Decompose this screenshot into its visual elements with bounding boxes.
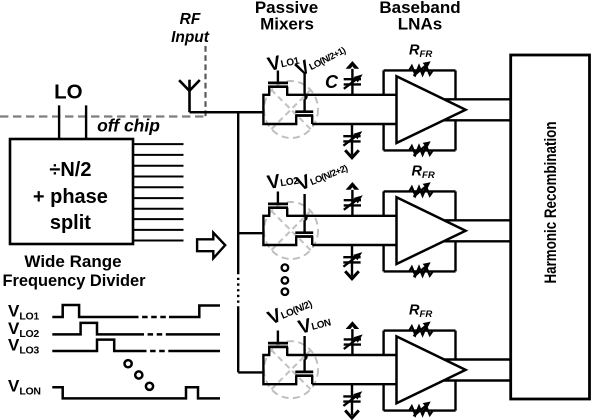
svg-text:VLON: VLON xyxy=(8,377,41,398)
RF feed vertical (solid) xyxy=(237,112,239,272)
label V_LO1 xyxy=(265,48,301,76)
transistor Q3a gate bar xyxy=(268,342,288,345)
transistor Q2a source stub xyxy=(286,208,288,217)
transistor Q1b channel bar xyxy=(295,114,313,117)
transistor Q3b drain stub xyxy=(311,376,313,385)
transistor Q3b channel bar xyxy=(295,374,313,377)
svg-text:LNAs: LNAs xyxy=(398,15,442,34)
wire: mixer M3 upper output xyxy=(287,354,397,356)
LNA U2 feedback bottom wire xyxy=(384,270,456,272)
big hollow arrow xyxy=(197,233,225,259)
LNA U1 feedback bottom wire xyxy=(384,149,456,151)
resistor RFR1 bottom (variable) xyxy=(409,141,433,156)
LNA U1 feedback top wire xyxy=(384,69,456,71)
waveform V_LO1 trace xyxy=(52,305,133,317)
capacitor C3b (bottom varactor) xyxy=(343,384,362,418)
op-amp LNA U2 feedback loop left vertical xyxy=(382,191,384,271)
svg-text:÷N/2: ÷N/2 xyxy=(49,159,91,181)
resistor RFR2 bottom (variable) xyxy=(409,262,433,277)
wire hop of Q2b gate over output xyxy=(304,214,307,221)
wire: mixer M3 lower output xyxy=(312,383,397,385)
wire: mixer M2 upper output xyxy=(287,215,397,217)
capacitor C3t (top varactor) xyxy=(344,321,363,355)
mixer M2 input node path xyxy=(263,208,296,245)
wire hop of Q3b gate over output xyxy=(304,353,307,360)
transistor Q3a source stub xyxy=(286,347,288,356)
svg-text:VLO(N/2+2): VLO(N/2+2) xyxy=(294,156,351,196)
svg-text:VLO(N/2+1): VLO(N/2+1) xyxy=(292,38,349,81)
transistor Q2b gate stub upper xyxy=(303,194,305,215)
transistor Q1a gate stub xyxy=(277,71,279,83)
RF feed vertical (solid lower) xyxy=(237,308,239,372)
transistor Q3b gate bar xyxy=(295,371,313,374)
op-amp LNA U1 triangle xyxy=(397,76,466,143)
label V_LO(N/2) xyxy=(264,291,315,329)
transistor Q2b gate bar xyxy=(295,231,313,234)
transistor Q3a gate stub xyxy=(277,331,279,344)
wire: LNA U1 lower output to recombiner xyxy=(444,119,511,121)
svg-text:Mixers: Mixers xyxy=(260,15,314,34)
wire: antenna to mixers node xyxy=(190,111,264,113)
svg-text:split: split xyxy=(50,212,91,234)
resistor RFR3 bottom (variable) xyxy=(409,402,433,417)
capacitor C2b (bottom varactor) xyxy=(343,245,362,279)
waveform V_LON trace xyxy=(52,387,220,398)
wire: LNA U2 lower output to recombiner xyxy=(444,240,511,242)
LO input stubs xyxy=(58,105,60,139)
svg-text:+ phase: + phase xyxy=(33,186,108,208)
LNA U3 feedback top wire xyxy=(384,329,456,331)
label V_LON xyxy=(296,310,333,339)
transistor Q2a gate bar xyxy=(268,203,288,206)
LNA U3 feedback right vertical xyxy=(454,331,456,411)
mixer M1 input node path xyxy=(263,87,296,124)
transistor Q2b channel bar xyxy=(295,235,313,238)
svg-text:RF: RF xyxy=(180,11,201,28)
mixer M2 dashed circle xyxy=(264,202,318,259)
svg-text:Frequency Divider: Frequency Divider xyxy=(3,271,146,290)
svg-text:RFR: RFR xyxy=(409,43,432,61)
mixer M1 dashed X xyxy=(271,90,311,130)
LNA U1 feedback right vertical xyxy=(454,70,456,150)
waveform ellipsis circles xyxy=(125,360,154,390)
waveform V_LO2 trace xyxy=(52,323,138,335)
transistor Q2a gate stub xyxy=(277,192,279,204)
transistor Q2b gate stub lower xyxy=(303,220,305,233)
svg-text:RFR: RFR xyxy=(412,164,435,182)
transistor Q1a gate bar xyxy=(268,82,288,85)
transistor Q3b gate stub upper xyxy=(303,336,305,354)
transistor Q2a channel bar xyxy=(268,206,288,209)
wire: RF input to mixer M1 xyxy=(190,111,264,113)
wire: RF input to mixer M3 xyxy=(238,371,263,373)
resistor RFR3 top (variable) xyxy=(409,322,433,337)
transistor Q1a channel bar xyxy=(268,85,288,88)
mixer M2 dashed X xyxy=(271,211,311,251)
off-chip boundary dashed line xyxy=(0,115,206,117)
wire: LNA U3 lower output to recombiner xyxy=(444,379,511,381)
svg-text:RFR: RFR xyxy=(409,303,432,321)
harmonic recombination box xyxy=(511,55,590,399)
divider box U0 xyxy=(10,139,133,244)
wire: LNA U1 upper output to recombiner xyxy=(444,98,511,100)
op-amp LNA U3 triangle xyxy=(397,336,466,403)
wire: mixer M1 lower output xyxy=(312,123,397,125)
svg-text:Input: Input xyxy=(171,29,210,46)
mixer M3 dashed X xyxy=(271,350,311,390)
transistor Q1b gate bar xyxy=(295,110,313,113)
op-amp LNA U3 feedback loop left vertical xyxy=(382,331,384,411)
divider output lines xyxy=(133,144,184,240)
capacitor C2t (top varactor) xyxy=(344,182,363,216)
transistor Q1b gate stub lower xyxy=(303,99,305,112)
transistor Q1b drain stub xyxy=(311,116,313,125)
RF feed vertical (dotted continuation) xyxy=(237,272,239,308)
transistor Q1a source stub xyxy=(286,87,288,96)
mixer M1 dashed circle xyxy=(264,81,318,138)
LNA U2 feedback top wire xyxy=(384,190,456,192)
wire hop of Q1b gate over output xyxy=(304,93,307,100)
waveform V_LO3 trace xyxy=(52,340,141,351)
svg-text:LO: LO xyxy=(54,81,83,104)
capacitor C1b (bottom varactor) xyxy=(343,124,362,158)
transistor Q2b drain stub xyxy=(311,237,313,246)
svg-text:Harmonic Recombination: Harmonic Recombination xyxy=(541,122,560,284)
wire: LNA U2 upper output to recombiner xyxy=(444,219,511,221)
transistor Q1b gate stub upper xyxy=(303,73,305,94)
wire: mixer M1 upper output xyxy=(287,94,397,96)
label V_LO(N/2+2) xyxy=(294,156,351,196)
LNA U3 feedback bottom wire xyxy=(384,409,456,411)
svg-text:off chip: off chip xyxy=(97,116,160,136)
LNA U2 feedback right vertical xyxy=(454,191,456,271)
RF input dashed stub xyxy=(204,46,206,117)
transistor Q3a channel bar xyxy=(268,346,288,349)
op-amp LNA U2 triangle xyxy=(397,197,466,264)
wire: LNA U3 upper output to recombiner xyxy=(444,358,511,360)
antenna xyxy=(179,80,200,113)
mixer M3 input node path xyxy=(263,347,296,384)
svg-text:C: C xyxy=(325,72,339,92)
wire: mixer M2 lower output xyxy=(312,244,397,246)
resistor RFR2 top (variable) xyxy=(409,182,433,197)
wire: RF input to mixer M2 xyxy=(238,232,263,234)
capacitor C1t (top varactor) xyxy=(344,61,363,95)
label V_LO(N/2+1) xyxy=(292,38,349,81)
resistor RFR1 top (variable) xyxy=(409,61,433,76)
label V_LO2 xyxy=(266,168,301,194)
op-amp LNA U1 feedback loop left vertical xyxy=(382,70,384,150)
svg-text:Wide Range: Wide Range xyxy=(24,252,121,271)
mixer M3 dashed circle xyxy=(264,341,318,398)
ellipsis dots between mixer 2 and 3 xyxy=(282,264,289,295)
transistor Q3b gate stub lower xyxy=(303,359,305,372)
